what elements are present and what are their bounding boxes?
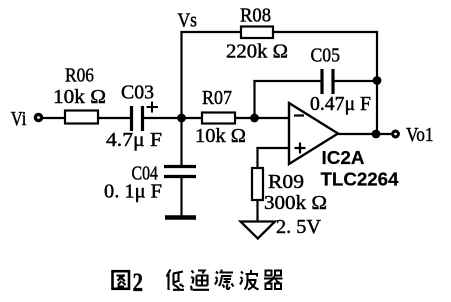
svg-text:2: 2: [133, 268, 144, 297]
caption char 通: [191, 271, 210, 291]
capacitor C05 plates: [322, 69, 333, 94]
svg-text:4.7μ F: 4.7μ F: [106, 129, 162, 151]
capacitor C04 plates: [164, 167, 196, 177]
wire plus input down to R09: [256, 147, 258, 168]
wire node A up to C05: [253, 80, 255, 118]
caption char 滤: [215, 270, 234, 290]
svg-text:R06: R06: [65, 65, 94, 87]
wire C05 right plate to right rail: [335, 80, 378, 82]
svg-text:R09: R09: [268, 171, 304, 193]
wire Vi to R06: [42, 117, 65, 119]
svg-text:TLC2264: TLC2264: [321, 169, 400, 190]
capacitor C03 plates: [132, 106, 143, 131]
wire R08 to right rail: [273, 31, 378, 33]
svg-text:Vi: Vi: [11, 108, 27, 130]
caption char 波: [240, 270, 259, 290]
terminal Vo1: [393, 131, 399, 137]
svg-text:10k Ω: 10k Ω: [195, 125, 246, 147]
wire to C05 left plate: [253, 80, 320, 82]
wire C04 to ground: [180, 177, 182, 216]
node junction at R07 output: [250, 114, 259, 123]
svg-text:220k Ω: 220k Ω: [226, 41, 288, 63]
wire node to C04: [180, 118, 182, 166]
wire Vs to R08: [180, 31, 241, 33]
svg-text:C03: C03: [121, 82, 154, 104]
wire R06 to C03: [98, 117, 130, 119]
op-amp plus input sign: [295, 143, 306, 154]
svg-text:C05: C05: [311, 45, 341, 67]
wire op-amp output to Vo1: [338, 133, 391, 135]
node junction at output: [372, 130, 381, 139]
ground bar below C04: [165, 215, 196, 220]
ground symbol 2.5V: [241, 222, 276, 239]
wire C03 to node Vs junction to R07: [144, 117, 202, 119]
resistor R07: [202, 113, 235, 124]
op-amp minus input sign: [294, 114, 304, 116]
wire R09 to ground triangle: [256, 200, 258, 221]
wire R07 to node A to op-amp minus input: [235, 117, 289, 119]
caption char 器: [264, 271, 283, 290]
resistor R09: [252, 168, 263, 200]
svg-text:2. 5V: 2. 5V: [276, 216, 321, 238]
node junction at Vs/C04: [177, 114, 186, 123]
op-amp IC2A triangle: [289, 103, 338, 164]
svg-text:Vo1: Vo1: [406, 124, 434, 146]
capacitor C03 plus sign: [147, 102, 159, 113]
svg-text:0. 1μ F: 0. 1μ F: [104, 181, 162, 203]
wire plus input: [256, 147, 289, 149]
terminal Vi: [35, 114, 41, 120]
svg-text:0.47μ F: 0.47μ F: [310, 93, 371, 115]
resistor R06: [65, 111, 98, 124]
caption char 低: [167, 270, 185, 291]
svg-text:10k Ω: 10k Ω: [53, 86, 106, 108]
caption char 图: [113, 271, 130, 289]
node junction at C05 right: [373, 76, 382, 85]
wire right rail vertical: [376, 31, 378, 134]
svg-text:R07: R07: [202, 87, 232, 109]
wire node Vs vertical: [180, 31, 182, 118]
resistor R08: [241, 27, 273, 39]
svg-text:Vs: Vs: [178, 10, 198, 32]
svg-text:300k Ω: 300k Ω: [264, 192, 327, 214]
svg-text:R08: R08: [240, 5, 271, 27]
svg-text:IC2A: IC2A: [322, 147, 365, 168]
